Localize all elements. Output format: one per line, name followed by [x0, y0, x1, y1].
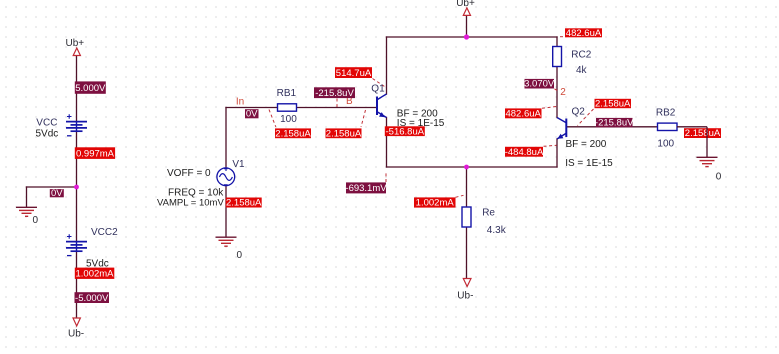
svg-text:Ub+: Ub+ — [66, 38, 85, 49]
resistor RB1 — [278, 104, 297, 111]
ground 0 (right, under RB2 net) — [697, 157, 718, 166]
bias voltage label -215.8uV (Q2 base) — [595, 118, 634, 129]
source V1 circle — [217, 168, 235, 186]
bias voltage label -693.1mV — [345, 182, 387, 194]
power symbol Ub+ (top rail) — [463, 8, 470, 15]
bias current label 482.6uA (mid) — [505, 108, 542, 119]
svg-text:Q2: Q2 — [572, 107, 586, 118]
leader 3.070V to RC2 pin — [555, 89, 558, 91]
leader RB1 pin2 current — [361, 110, 366, 127]
battery VCC2 — [66, 242, 87, 252]
battery VCC — [66, 122, 87, 132]
svg-text:3.070V: 3.070V — [524, 79, 555, 90]
svg-text:Re: Re — [482, 208, 495, 219]
svg-text:V1: V1 — [232, 159, 245, 170]
wire left column top (Ub+ to VCC) — [76, 56, 78, 122]
power symbol Ub- (under Re) — [463, 279, 471, 287]
resistor Re — [462, 207, 471, 227]
leader 1.002mA to Re wire — [456, 195, 464, 197]
leader 482.6uA top to rail corner — [560, 36, 565, 38]
svg-text:482.6uA: 482.6uA — [505, 108, 541, 119]
bias current label 2.158uA (V1) — [226, 198, 262, 209]
wire ground spur vertical — [26, 187, 28, 207]
resistor RC2 — [553, 47, 562, 67]
svg-text:-215.8uV: -215.8uV — [595, 118, 634, 129]
wire Q2 emitter down — [556, 139, 558, 167]
wire Q2 base to RB2 — [567, 126, 658, 128]
bias current label -484.8uA — [505, 147, 544, 158]
power symbol Ub- (left column) — [73, 318, 80, 326]
source V1 pin stub — [224, 168, 228, 171]
svg-text:5Vdc: 5Vdc — [36, 129, 59, 140]
source V1 minus tick — [224, 184, 228, 186]
wire ground spur horizontal — [27, 186, 77, 188]
svg-text:0: 0 — [33, 215, 39, 226]
leader -693.1mV to emitter rail — [385, 172, 387, 183]
junction node (bottom rail / Re) — [464, 165, 469, 170]
junction node (top rail / Ub+) — [464, 34, 469, 39]
bias voltage label -5.000V — [75, 292, 110, 304]
svg-text:Ub-: Ub- — [68, 328, 84, 339]
svg-text:-5.000V: -5.000V — [75, 293, 109, 304]
svg-text:4.3k: 4.3k — [487, 225, 507, 236]
wire V1 top — [225, 108, 227, 168]
wire RC2 top stem — [556, 37, 558, 47]
svg-text:100: 100 — [280, 114, 297, 125]
bias voltage label 3.070V — [524, 79, 555, 90]
svg-text:RC2: RC2 — [571, 49, 591, 60]
svg-text:VAMPL = 10mV: VAMPL = 10mV — [157, 198, 224, 209]
battery VCC plus sign — [67, 114, 72, 118]
svg-text:1.002mA: 1.002mA — [416, 198, 455, 209]
leader 2.158uA to Q2 base wire — [578, 109, 594, 126]
wire Q1 collector up — [386, 37, 388, 94]
svg-text:-693.1mV: -693.1mV — [345, 183, 387, 194]
bias current label 2.158uA (RB1 pin2) — [326, 128, 362, 139]
svg-text:0.997mA: 0.997mA — [76, 148, 115, 159]
svg-text:482.6uA: 482.6uA — [566, 28, 602, 39]
svg-text:2.158uA: 2.158uA — [326, 128, 362, 139]
bias voltage label 0V (In) — [245, 109, 259, 120]
transistor Q1 emitter arrow — [379, 112, 385, 117]
svg-text:-516.8uA: -516.8uA — [386, 126, 425, 137]
ground 0 (under V1) — [216, 237, 237, 246]
wire RB2 corner down to ground (drawn over label box) — [677, 127, 707, 157]
wire Ub+ stem — [466, 16, 468, 37]
svg-text:Ub+: Ub+ — [456, 0, 475, 9]
resistor RB2 — [658, 123, 678, 130]
svg-text:0V: 0V — [246, 109, 258, 120]
transistor Q1 — [377, 94, 387, 118]
svg-text:BF = 200: BF = 200 — [566, 139, 607, 150]
battery VCC center stub — [76, 121, 78, 132]
svg-text:VCC2: VCC2 — [91, 227, 118, 238]
svg-text:1.002mA: 1.002mA — [75, 269, 114, 280]
svg-text:2.158uA: 2.158uA — [275, 128, 311, 139]
bias voltage label -215.8uV (Q1 base) — [314, 87, 355, 99]
leader RB1 pin1 current — [269, 110, 276, 127]
battery VCC2 center stub — [76, 241, 78, 252]
svg-text:RB1: RB1 — [277, 88, 297, 99]
battery VCC2 plus sign — [67, 234, 72, 238]
svg-text:VCC: VCC — [36, 118, 57, 129]
leader 482.6uA mid to Q2 collector wire — [542, 107, 557, 109]
wire left column bottom (VCC2 to Ub-) — [76, 252, 78, 318]
svg-text:514.7uA: 514.7uA — [336, 68, 372, 79]
wire left column mid (VCC to VCC2, through node) — [76, 132, 78, 242]
svg-text:Q1: Q1 — [371, 84, 385, 95]
svg-text:RB2: RB2 — [656, 108, 676, 119]
wire bottom rail — [387, 166, 558, 168]
svg-text:Ub-: Ub- — [457, 291, 473, 302]
battery VCC2 minus sign — [67, 255, 72, 257]
bias current label -516.8uA — [385, 126, 425, 137]
leader dashes — [269, 37, 594, 198]
bias current label 2.158uA (Q2 base) — [595, 99, 632, 110]
power symbol Ub+ (left column) — [73, 48, 80, 56]
bias current label 0.997mA — [75, 147, 115, 159]
bias current label 2.158uA (RB2 out) — [684, 128, 721, 139]
svg-text:0V: 0V — [51, 188, 63, 199]
leader -215.8uV to base wire — [336, 99, 338, 108]
svg-text:2.158uA: 2.158uA — [595, 99, 631, 110]
bias voltage label 0V (left) — [50, 188, 64, 199]
svg-text:0: 0 — [237, 250, 243, 261]
bias voltage label 5.000V — [75, 81, 106, 94]
svg-text:2: 2 — [560, 87, 566, 98]
svg-text:VOFF = 0: VOFF = 0 — [167, 168, 211, 179]
source V1 sine symbol — [219, 174, 232, 181]
wire Re top stem — [466, 167, 468, 207]
svg-text:IS = 1E-15: IS = 1E-15 — [565, 158, 613, 169]
svg-text:-215.8uV: -215.8uV — [315, 88, 354, 99]
svg-text:5.000V: 5.000V — [75, 83, 106, 94]
leader -484.8uA to Q2 emitter wire — [544, 145, 557, 146]
wire In to RB1 — [226, 107, 278, 109]
bias current label 1.002mA (Re) — [414, 197, 456, 208]
ground 0 (left) — [16, 207, 37, 216]
bias current label 482.6uA (top) — [565, 28, 602, 39]
bias current label 514.7uA — [335, 67, 372, 79]
transistor Q2 emitter arrow — [557, 134, 563, 139]
bias current label 1.002mA (VCC2) — [75, 268, 115, 280]
battery VCC minus sign — [67, 135, 72, 137]
leader 514.7uA to Q1 collector — [373, 79, 387, 88]
svg-text:2.158uA: 2.158uA — [685, 128, 721, 139]
svg-text:100: 100 — [657, 138, 674, 149]
svg-text:2.158uA: 2.158uA — [226, 198, 262, 209]
svg-text:-484.8uA: -484.8uA — [505, 147, 544, 158]
svg-text:In: In — [236, 96, 244, 107]
svg-text:0: 0 — [716, 172, 722, 183]
wire RB1 to Q1 base — [297, 107, 377, 109]
svg-text:4k: 4k — [576, 65, 588, 76]
wire RC2 to Q2 collector — [556, 67, 558, 118]
junction node (left column / ground spur) — [74, 185, 79, 190]
transistor Q2 (mirrored) — [557, 118, 566, 140]
wire Q1 emitter down — [386, 118, 388, 168]
bias current label 2.158uA (RB1 pin1) — [275, 128, 311, 139]
wire V1 bottom to ground — [225, 186, 227, 237]
wire Re bottom to Ub- — [466, 227, 468, 279]
wire top rail — [387, 36, 558, 38]
